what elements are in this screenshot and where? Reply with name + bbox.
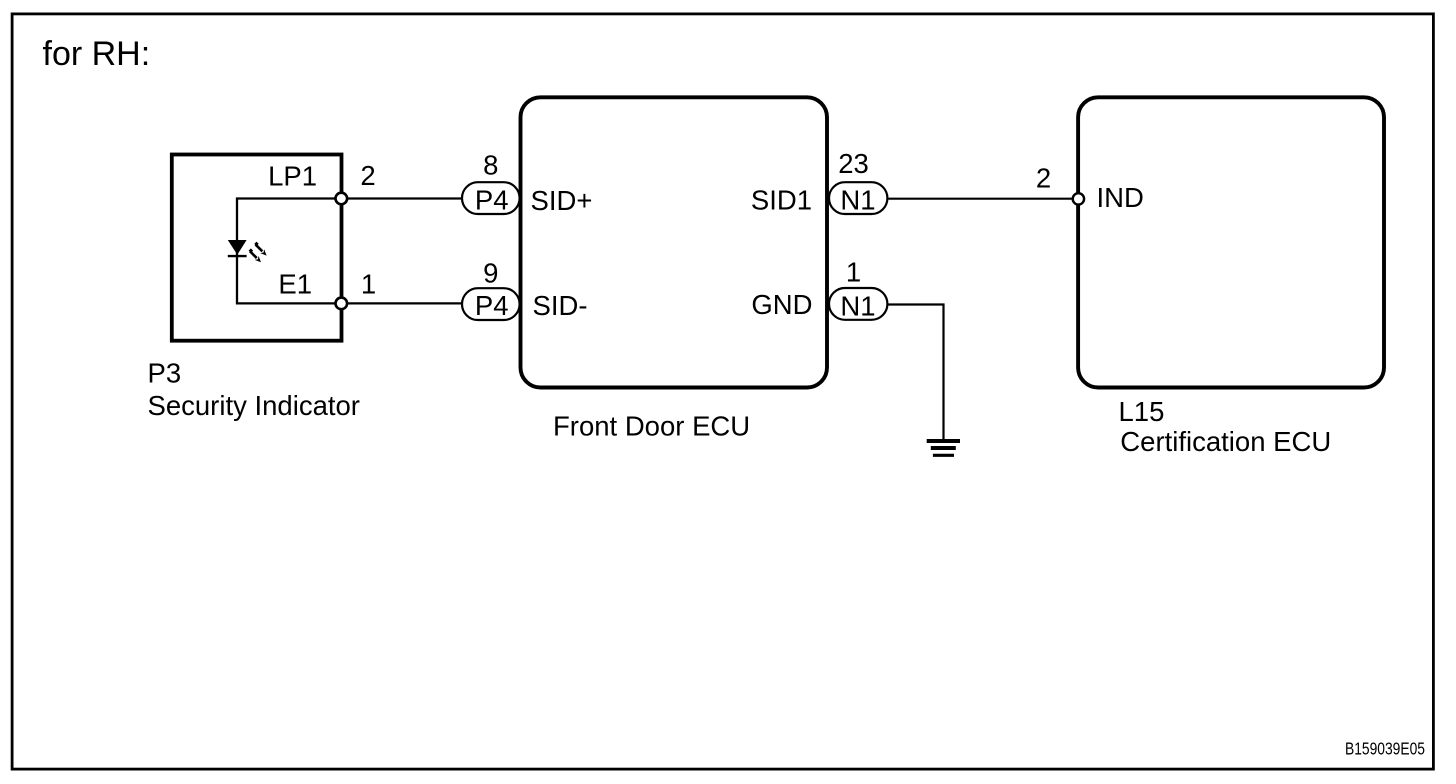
- LED cathode bar: [228, 255, 247, 257]
- terminal circle lamp pin 1: [336, 298, 348, 310]
- svg-text:2: 2: [1036, 163, 1051, 194]
- svg-text:1: 1: [361, 269, 376, 300]
- connector P4 pin 9: [462, 258, 520, 321]
- svg-text:P3: P3: [148, 358, 182, 389]
- svg-text:N1: N1: [840, 185, 875, 216]
- svg-text:1: 1: [846, 256, 861, 287]
- connector P4 pin 8: [462, 149, 520, 215]
- wire internal LED loop: [237, 199, 341, 304]
- terminal circle lamp pin 2: [336, 193, 348, 205]
- wire lamp pin2 to P4: [341, 197, 462, 199]
- terminal circle IND pin 2: [1073, 193, 1084, 204]
- ECU box Certification ECU: [1078, 97, 1384, 387]
- wire N1 to ground: [888, 305, 944, 440]
- connector N1 pin 1: [829, 256, 887, 321]
- LED triangle (cathode down): [228, 240, 247, 255]
- svg-text:GND: GND: [751, 289, 812, 320]
- svg-text:23: 23: [838, 148, 869, 179]
- svg-text:8: 8: [483, 149, 498, 180]
- svg-text:SID-: SID-: [533, 290, 588, 321]
- svg-text:L15: L15: [1119, 396, 1165, 427]
- svg-text:SID+: SID+: [531, 185, 593, 216]
- LED light arrow 2: [247, 248, 263, 264]
- svg-text:E1: E1: [278, 269, 312, 300]
- svg-text:LP1: LP1: [268, 160, 317, 191]
- LED light arrow 1: [253, 242, 269, 258]
- lamp box P3 Security Indicator: [172, 155, 342, 341]
- svg-text:N1: N1: [840, 291, 875, 322]
- wire SID1/N1 to IND: [888, 198, 1073, 200]
- svg-text:Certification ECU: Certification ECU: [1120, 426, 1331, 457]
- svg-text:P4: P4: [475, 185, 509, 216]
- ground symbol: [927, 441, 960, 455]
- wire lamp pin1 to P4: [341, 302, 462, 304]
- svg-text:B159039E05: B159039E05: [1345, 739, 1425, 759]
- svg-text:Security Indicator: Security Indicator: [148, 390, 360, 421]
- svg-text:for RH:: for RH:: [43, 35, 151, 73]
- svg-text:2: 2: [360, 160, 375, 191]
- svg-text:Front Door ECU: Front Door ECU: [553, 410, 750, 441]
- connector N1 pin 23: [829, 148, 887, 216]
- svg-text:P4: P4: [475, 290, 509, 321]
- ECU box Front Door ECU: [521, 97, 828, 387]
- svg-text:IND: IND: [1097, 182, 1144, 213]
- svg-text:9: 9: [483, 258, 498, 289]
- svg-text:SID1: SID1: [751, 185, 812, 216]
